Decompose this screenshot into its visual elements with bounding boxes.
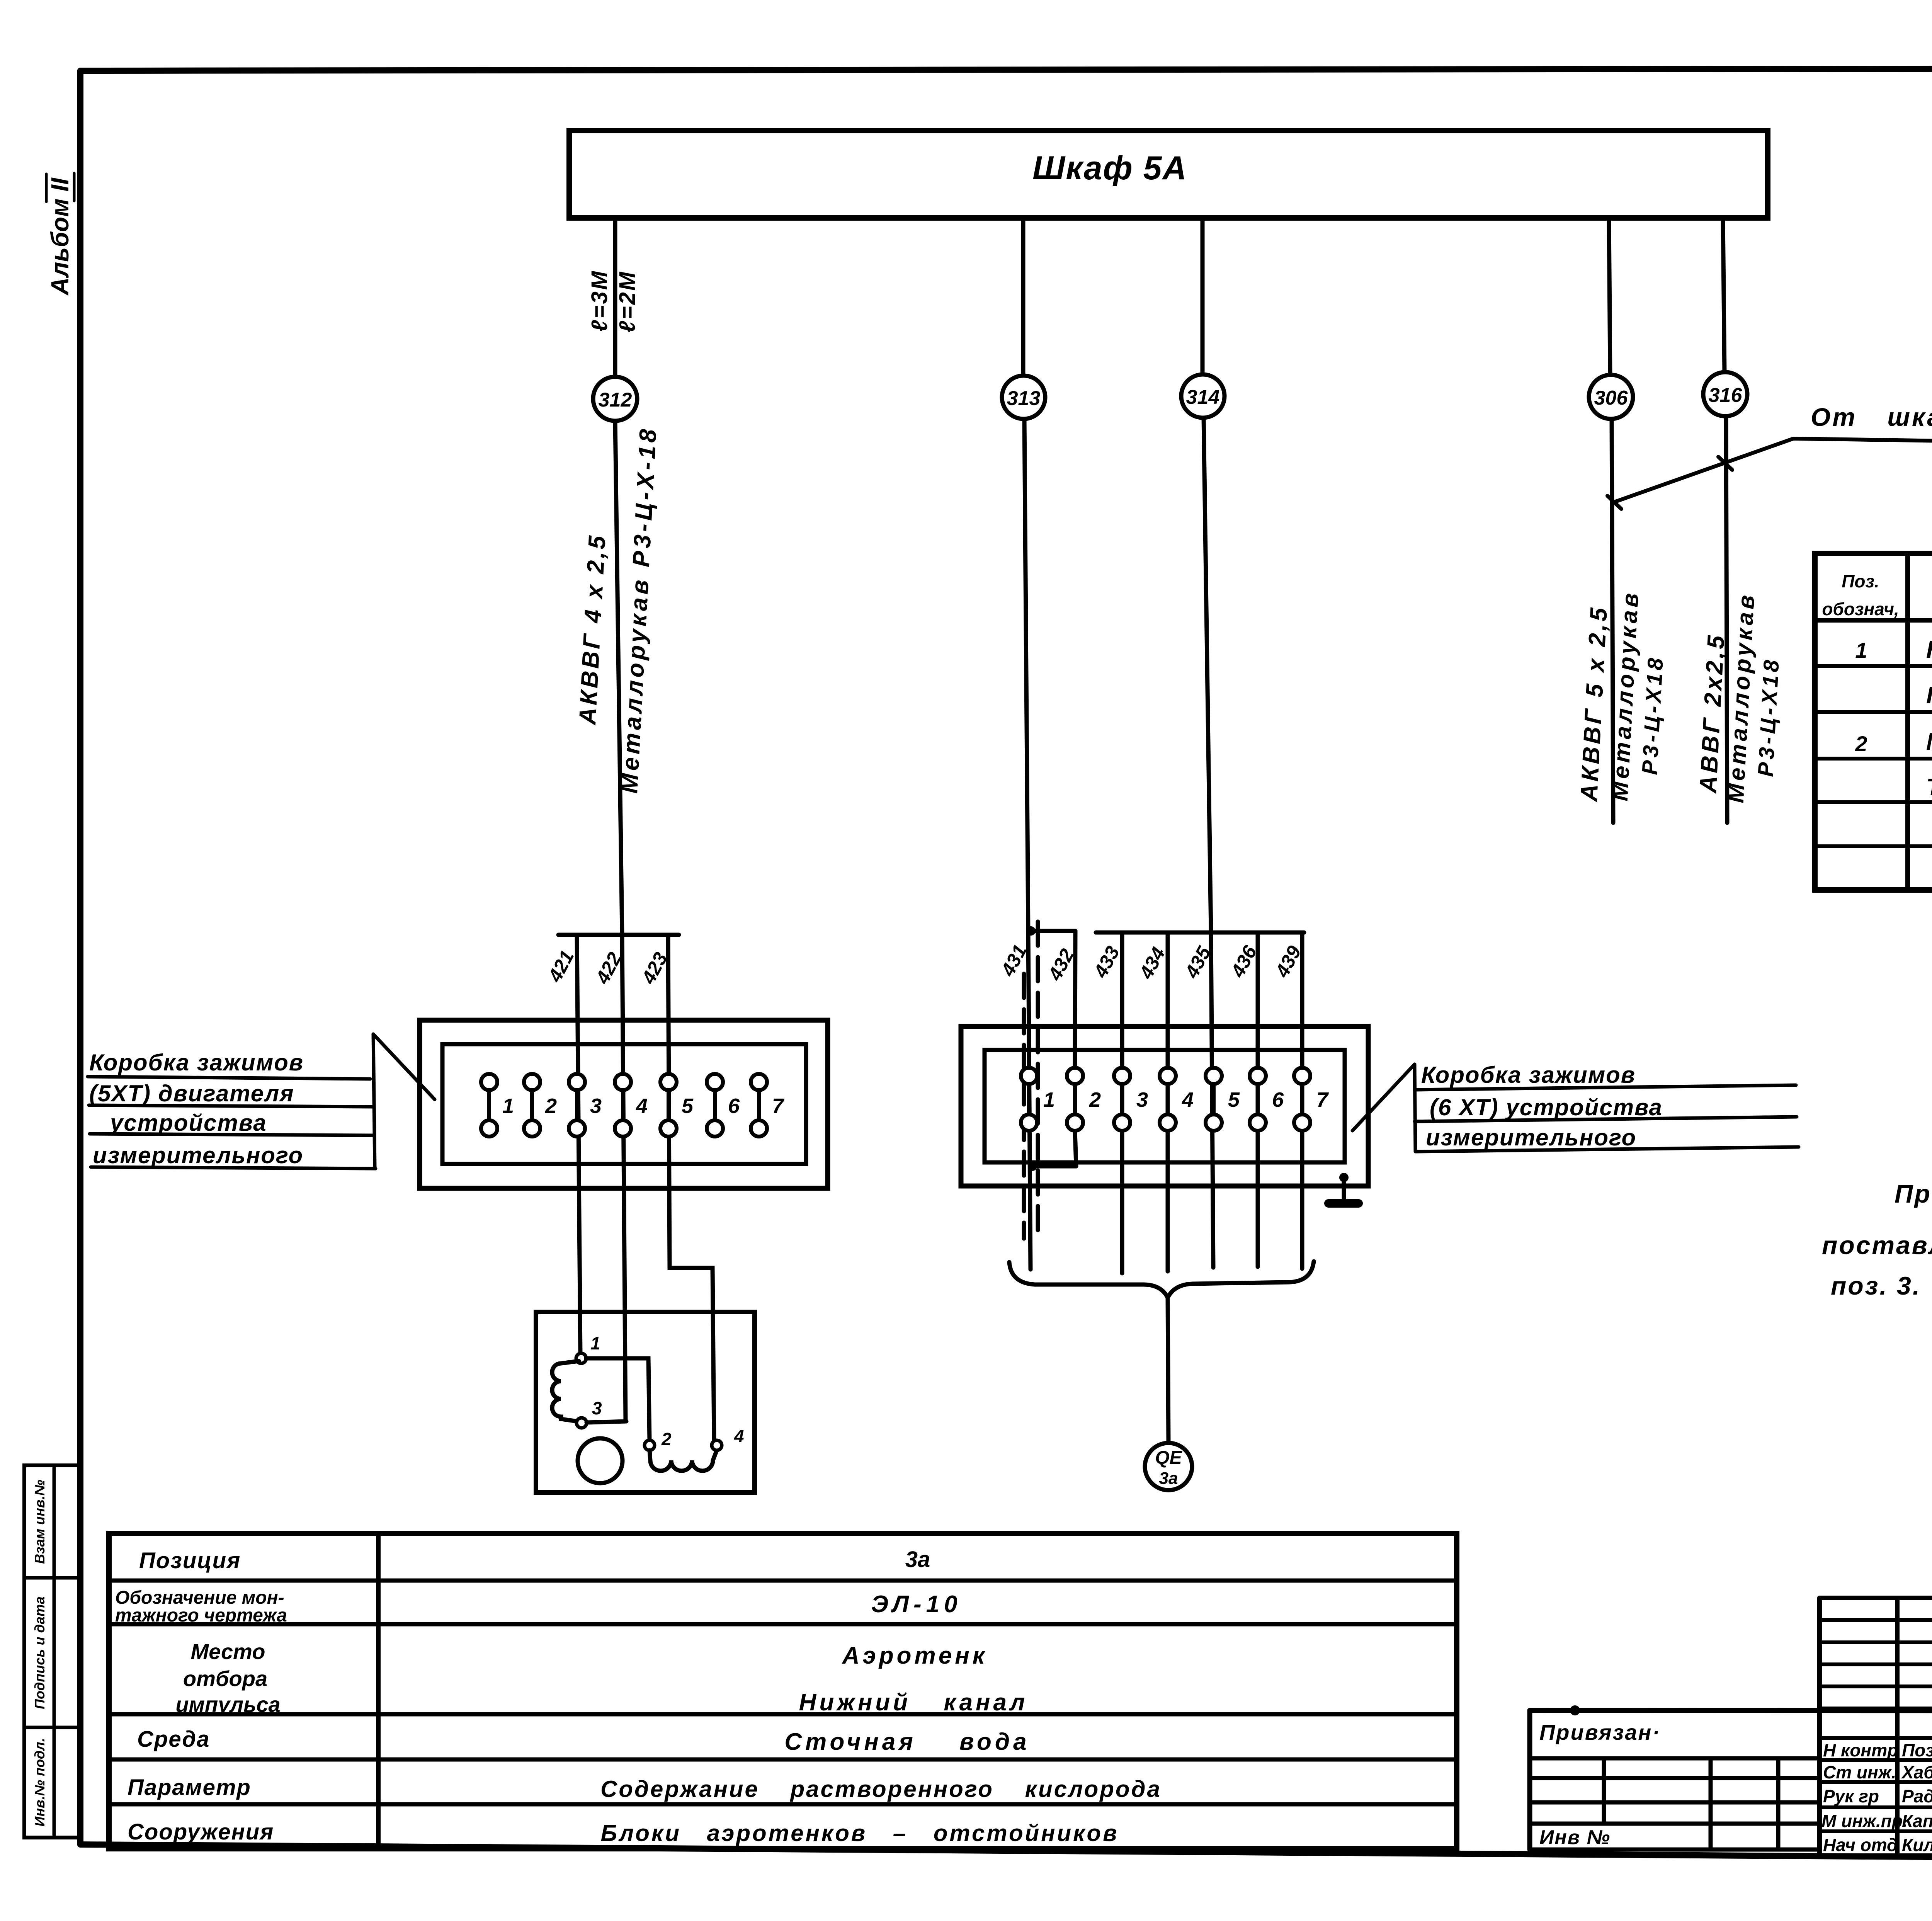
svg-text:6: 6 bbox=[1272, 1088, 1284, 1111]
6XT terminal 1 bbox=[1021, 1068, 1055, 1131]
wire 312 upper segment bbox=[613, 218, 617, 377]
node circle 306 bbox=[1589, 375, 1633, 419]
svg-text:2: 2 bbox=[1855, 732, 1867, 756]
svg-text:6: 6 bbox=[728, 1094, 740, 1118]
tick on wire 306 bbox=[1607, 496, 1621, 509]
device terminal 1 bbox=[576, 1353, 586, 1363]
svg-text:4: 4 bbox=[1182, 1088, 1194, 1111]
6XT terminal 6 bbox=[1250, 1068, 1284, 1131]
wire 423 bbox=[668, 935, 714, 1441]
title stamp bbox=[1530, 1598, 1932, 1858]
wire 432 bbox=[1075, 931, 1076, 1166]
jumper wire 431 to 432 bbox=[1032, 1164, 1076, 1169]
device terminal 4 bbox=[712, 1440, 722, 1450]
svg-text:устройства: устройства bbox=[109, 1110, 267, 1136]
svg-text:Позиция: Позиция bbox=[139, 1548, 241, 1573]
svg-text:От шкафа 4А: От шкафа 4А bbox=[1811, 403, 1932, 431]
svg-text:Ст инж.: Ст инж. bbox=[1823, 1762, 1896, 1782]
svg-text:измерительного: измерительного bbox=[93, 1142, 303, 1168]
wire 312 lower segment bbox=[615, 421, 622, 935]
leader line От шкафа 4А bbox=[1614, 439, 1932, 502]
page bottom border bbox=[80, 1844, 1932, 1862]
svg-text:QE: QE bbox=[1155, 1448, 1182, 1468]
wire 306 upper segment bbox=[1609, 218, 1610, 374]
wire 306 lower segment bbox=[1612, 419, 1613, 823]
svg-text:1: 1 bbox=[502, 1094, 514, 1118]
svg-text:ℓ=2М: ℓ=2М bbox=[615, 271, 640, 332]
svg-text:Аэротенк: Аэротенк bbox=[842, 1642, 988, 1669]
svg-text:тажного чертежа: тажного чертежа bbox=[115, 1605, 287, 1626]
svg-text:поставляются в комплекте с п: поставляются в комплекте с прибором bbox=[1822, 1231, 1932, 1259]
page top border bbox=[80, 68, 1932, 71]
svg-text:М инж.пр.: М инж.пр. bbox=[1821, 1811, 1908, 1831]
wire 436 bbox=[1256, 932, 1260, 1267]
svg-text:Подпись и дата: Подпись и дата bbox=[32, 1596, 48, 1709]
stamp left table bbox=[1527, 1710, 1532, 1850]
svg-text:306: 306 bbox=[1594, 387, 1628, 409]
svg-text:Коробка зажимов: Коробка зажимов bbox=[89, 1050, 304, 1075]
svg-text:Капитульский: Капитульский bbox=[1902, 1811, 1932, 1831]
node circle 316 bbox=[1703, 372, 1747, 416]
dot on stamp top bbox=[1570, 1705, 1580, 1715]
winding 2-4 bbox=[650, 1450, 717, 1471]
shield dashed line left bbox=[1022, 974, 1026, 1239]
svg-text:7: 7 bbox=[1316, 1088, 1329, 1111]
cable 314 split bar bbox=[1096, 931, 1304, 935]
cable 312 split bar bbox=[558, 933, 679, 937]
svg-text:Инв.№ подл.: Инв.№ подл. bbox=[32, 1738, 48, 1826]
svg-text:импульса: импульса bbox=[175, 1692, 280, 1717]
svg-text:Кабель АКВВГ 4 х2.5: Кабель АКВВГ 4 х2.5 bbox=[1926, 636, 1932, 663]
label Коробка зажимов (5ХТ) bbox=[88, 1034, 435, 1169]
svg-text:Взам инв.№: Взам инв.№ bbox=[32, 1480, 48, 1564]
svg-text:5: 5 bbox=[1228, 1088, 1240, 1111]
svg-text:Параметр: Параметр bbox=[128, 1775, 251, 1800]
5XT terminal 3 bbox=[569, 1074, 602, 1137]
svg-text:Содержание растворенного кис: Содержание растворенного кислорода bbox=[600, 1776, 1162, 1802]
6XT terminal 3 bbox=[1114, 1068, 1148, 1131]
terminal box 6XT inner bbox=[985, 1050, 1345, 1162]
svg-text:Сточная вода: Сточная вода bbox=[784, 1729, 1030, 1755]
device terminal 3 bbox=[577, 1418, 587, 1428]
svg-text:Позднякова: Позднякова bbox=[1902, 1740, 1932, 1760]
node circle 312 bbox=[593, 377, 637, 421]
measuring device box bbox=[536, 1312, 755, 1492]
terminal box 5XT inner bbox=[442, 1044, 806, 1164]
materials table bbox=[1815, 553, 1932, 890]
svg-text:(5ХТ) двигателя: (5ХТ) двигателя bbox=[89, 1080, 294, 1106]
wire 434 bbox=[1166, 932, 1170, 1271]
junction dot on jumper bbox=[1028, 1162, 1037, 1171]
svg-text:ℓ=3М: ℓ=3М bbox=[587, 270, 612, 332]
svg-text:1: 1 bbox=[590, 1333, 600, 1353]
svg-text:Кильметов: Кильметов bbox=[1902, 1835, 1932, 1855]
6XT terminal 4 bbox=[1160, 1068, 1194, 1131]
svg-text:(6 ХТ) устройства: (6 ХТ) устройства bbox=[1430, 1094, 1663, 1120]
wire 314 upper segment bbox=[1201, 218, 1205, 374]
svg-text:1: 1 bbox=[1855, 638, 1867, 662]
svg-text:4: 4 bbox=[734, 1426, 744, 1446]
svg-text:Нижний канал: Нижний канал bbox=[799, 1689, 1028, 1716]
svg-text:Среда: Среда bbox=[137, 1727, 210, 1752]
svg-text:Шкаф 5А: Шкаф 5А bbox=[1032, 150, 1187, 187]
5XT terminal 2 bbox=[524, 1074, 557, 1137]
svg-text:3: 3 bbox=[1136, 1088, 1148, 1111]
label Коробка зажимов (6ХТ) bbox=[1352, 1062, 1799, 1152]
shield dashed line right bbox=[1036, 922, 1040, 1239]
tick on wire 316 bbox=[1718, 457, 1732, 470]
svg-text:Инв №: Инв № bbox=[1539, 1826, 1611, 1849]
svg-text:ЭЛ-10: ЭЛ-10 bbox=[871, 1591, 962, 1618]
svg-text:Сооружения: Сооружения bbox=[128, 1819, 274, 1844]
ground junction dot bbox=[1339, 1173, 1349, 1182]
terminal box 5XT outer bbox=[420, 1020, 828, 1188]
node circle 314 bbox=[1181, 374, 1225, 418]
svg-text:316: 316 bbox=[1709, 384, 1743, 407]
svg-text:4: 4 bbox=[636, 1094, 648, 1118]
svg-text:3а: 3а bbox=[905, 1547, 930, 1572]
signature table bbox=[1820, 1598, 1932, 1855]
svg-text:5: 5 bbox=[682, 1094, 694, 1118]
device terminal 2 bbox=[645, 1440, 655, 1450]
wire 314 lower segment continuing into wire 435 bbox=[1204, 418, 1213, 1268]
5XT terminal 7 bbox=[751, 1074, 785, 1137]
svg-text:2: 2 bbox=[545, 1094, 557, 1118]
svg-text:поз. 3.: поз. 3. bbox=[1831, 1271, 1921, 1300]
wire 421 bbox=[577, 935, 580, 1354]
ground symbol bbox=[1342, 1177, 1346, 1201]
wire 316 upper segment bbox=[1723, 218, 1725, 372]
5XT terminal 6 bbox=[707, 1074, 740, 1137]
svg-text:Провод №313 и кабель №-314: Провод №313 и кабель №-314 bbox=[1895, 1179, 1932, 1208]
svg-text:Привязан·: Привязан· bbox=[1539, 1720, 1661, 1744]
6XT terminal 2 bbox=[1067, 1068, 1101, 1131]
cable 313 split bar bbox=[1029, 929, 1075, 933]
junction dot on bar 313 bbox=[1026, 926, 1036, 936]
svg-text:3а: 3а bbox=[1159, 1469, 1178, 1488]
svg-text:314: 314 bbox=[1186, 386, 1220, 408]
5XT terminal 1 bbox=[481, 1074, 514, 1137]
svg-text:7: 7 bbox=[772, 1094, 785, 1118]
6XT terminal 5 bbox=[1206, 1068, 1240, 1131]
svg-text:Альбом II: Альбом II bbox=[46, 177, 74, 296]
svg-text:Радюшкин: Радюшкин bbox=[1902, 1786, 1932, 1806]
link terminal 1 to terminal 2 bbox=[586, 1358, 650, 1440]
svg-text:Металлорукав Р3-Ц-Х18: Металлорукав Р3-Ц-Х18 bbox=[1926, 728, 1932, 755]
wire 313 lower segment continuing into wire 431 bbox=[1024, 419, 1031, 1269]
wire 422 bbox=[622, 935, 626, 1421]
page left border bbox=[77, 71, 83, 1844]
node circle 313 bbox=[1002, 376, 1045, 419]
svg-text:ГОСТ 1508 – 78Е: ГОСТ 1508 – 78Е bbox=[1926, 682, 1932, 709]
wire 313 upper segment bbox=[1021, 218, 1026, 376]
svg-text:обознач,: обознач, bbox=[1822, 599, 1899, 619]
svg-text:1: 1 bbox=[1043, 1088, 1055, 1111]
svg-text:313: 313 bbox=[1007, 387, 1041, 410]
svg-text:3: 3 bbox=[592, 1398, 602, 1418]
svg-text:отбора: отбора bbox=[183, 1666, 267, 1691]
link terminal 3 to wire 422 bbox=[587, 1421, 626, 1422]
svg-text:Нач отд: Нач отд bbox=[1823, 1835, 1898, 1855]
5XT terminal 5 bbox=[660, 1074, 694, 1137]
svg-text:измерительного: измерительного bbox=[1426, 1125, 1636, 1150]
terminal box 6XT outer bbox=[961, 1026, 1368, 1186]
svg-text:Рук гр: Рук гр bbox=[1823, 1786, 1879, 1806]
svg-text:312: 312 bbox=[599, 389, 632, 411]
brace under 6XT wires bbox=[1009, 1261, 1314, 1298]
svg-text:Н контр: Н контр bbox=[1823, 1740, 1898, 1760]
svg-text:3: 3 bbox=[590, 1094, 602, 1118]
note about cables 313 and 314 bbox=[1822, 1179, 1932, 1300]
cabinet box Шкаф 5А bbox=[569, 131, 1768, 218]
svg-text:Хабачев: Хабачев bbox=[1901, 1762, 1932, 1782]
svg-text:2: 2 bbox=[1089, 1088, 1101, 1111]
wire 433 bbox=[1120, 932, 1124, 1273]
svg-text:ТУ 22. 2173 - 71: ТУ 22. 2173 - 71 bbox=[1926, 774, 1932, 801]
6XT terminal 7 bbox=[1294, 1068, 1329, 1131]
svg-text:Место: Место bbox=[191, 1639, 265, 1664]
left margin strip bbox=[24, 1465, 80, 1838]
motor circle bbox=[578, 1438, 622, 1483]
svg-text:Блоки аэротенков – отстойнико: Блоки аэротенков – отстойников bbox=[601, 1820, 1119, 1846]
winding 1-3 bbox=[552, 1361, 579, 1421]
sensor circle QE 3a bbox=[1145, 1443, 1192, 1490]
wire 439 bbox=[1300, 932, 1304, 1269]
parameter title table bbox=[109, 1533, 1457, 1849]
5XT terminal 4 bbox=[615, 1074, 648, 1137]
svg-text:Коробка зажимов: Коробка зажимов bbox=[1421, 1062, 1636, 1088]
stamp top line bbox=[1530, 1710, 1932, 1711]
svg-text:2: 2 bbox=[661, 1429, 672, 1449]
svg-text:Поз.: Поз. bbox=[1842, 571, 1879, 591]
roman numeral bars of Альбом II bbox=[46, 173, 74, 202]
wire from brace to sensor bbox=[1168, 1298, 1168, 1442]
wire 316 lower segment bbox=[1726, 416, 1727, 823]
